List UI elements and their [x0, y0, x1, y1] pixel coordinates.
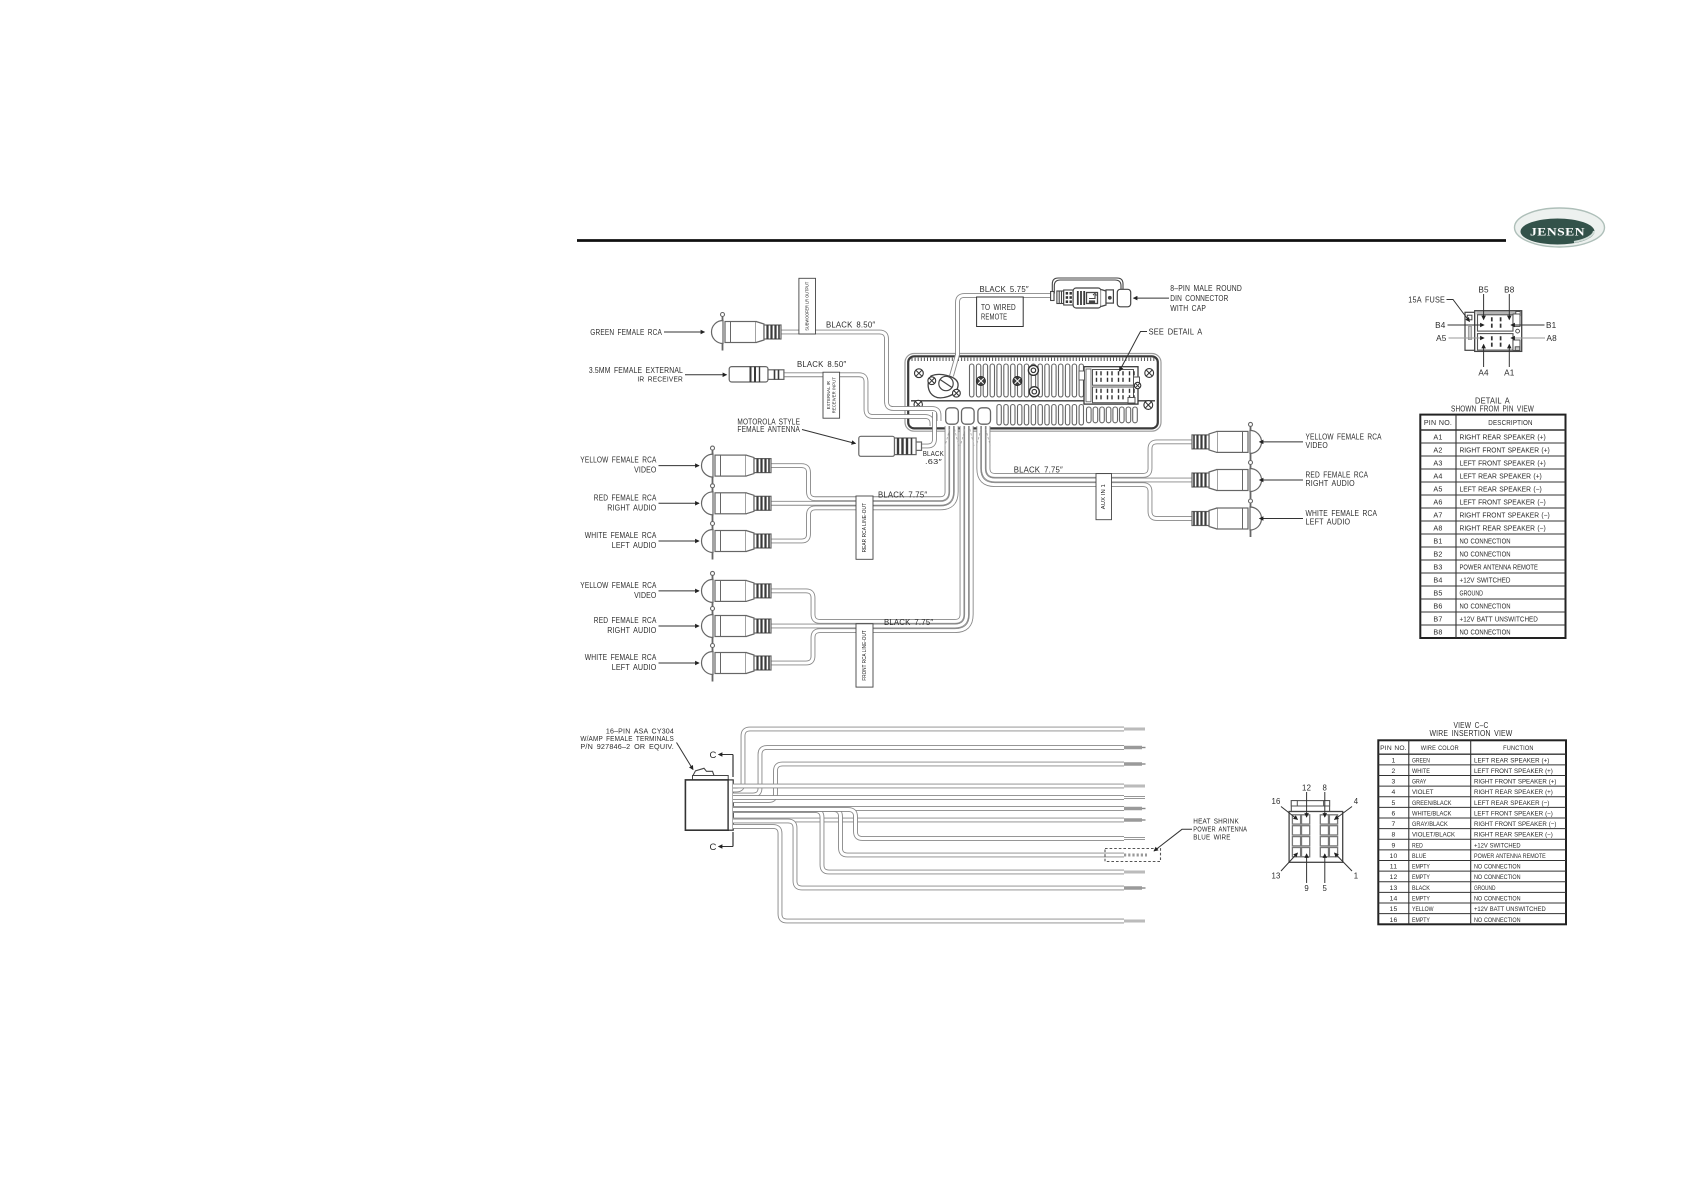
svg-text:LEFT AUDIO: LEFT AUDIO	[1306, 518, 1351, 527]
svg-text:B6: B6	[1433, 601, 1442, 610]
svg-text:LEFT FRONT SPEAKER (+): LEFT FRONT SPEAKER (+)	[1474, 768, 1553, 775]
svg-text:GROUND: GROUND	[1474, 885, 1496, 892]
svg-text:WITH CAP: WITH CAP	[1170, 304, 1206, 313]
svg-text:POWER ANTENNA REMOTE: POWER ANTENNA REMOTE	[1460, 564, 1539, 571]
svg-text:C: C	[709, 750, 716, 761]
svg-text:A4: A4	[1433, 471, 1442, 480]
svg-text:GREEN: GREEN	[1412, 757, 1430, 764]
svg-text:RECEIVER INPUT: RECEIVER INPUT	[831, 377, 836, 413]
svg-text:10: 10	[1390, 853, 1398, 860]
svg-text:WIRE COLOR: WIRE COLOR	[1421, 745, 1459, 752]
svg-text:VIDEO: VIDEO	[634, 466, 656, 475]
svg-text:+12V BATT UNSWITCHED: +12V BATT UNSWITCHED	[1474, 906, 1546, 913]
svg-text:A7: A7	[1433, 510, 1442, 519]
svg-text:LEFT FRONT SPEAKER (+): LEFT FRONT SPEAKER (+)	[1460, 460, 1546, 467]
svg-text:WHITE FEMALE RCA: WHITE FEMALE RCA	[585, 653, 657, 662]
svg-text:A1: A1	[1433, 432, 1442, 441]
svg-text:A8: A8	[1433, 523, 1442, 532]
svg-text:RED: RED	[1412, 842, 1423, 849]
svg-text:LEFT FRONT SPEAKER (−): LEFT FRONT SPEAKER (−)	[1460, 499, 1546, 506]
svg-text:1: 1	[1392, 757, 1396, 764]
svg-text:4: 4	[1354, 797, 1359, 806]
svg-text:A4: A4	[1478, 369, 1489, 378]
svg-text:6: 6	[1392, 810, 1396, 817]
svg-text:8–PIN MALE ROUND: 8–PIN MALE ROUND	[1170, 284, 1242, 293]
svg-text:EMPTY: EMPTY	[1412, 874, 1430, 881]
svg-text:B1: B1	[1433, 536, 1442, 545]
svg-text:.63″: .63″	[925, 457, 942, 466]
svg-text:GRAY/BLACK: GRAY/BLACK	[1412, 821, 1448, 828]
svg-text:EMPTY: EMPTY	[1412, 864, 1430, 871]
svg-text:RIGHT REAR SPEAKER (−): RIGHT REAR SPEAKER (−)	[1474, 832, 1553, 839]
svg-text:7: 7	[1392, 821, 1396, 828]
svg-text:RIGHT FRONT SPEAKER (−): RIGHT FRONT SPEAKER (−)	[1474, 821, 1556, 828]
svg-text:FRONT RCA LINE-OUT: FRONT RCA LINE-OUT	[862, 630, 868, 680]
svg-text:REAR RCA LINE-OUT: REAR RCA LINE-OUT	[862, 502, 868, 552]
svg-text:15A FUSE: 15A FUSE	[1408, 295, 1445, 304]
svg-text:5: 5	[1392, 800, 1396, 807]
svg-text:LEFT AUDIO: LEFT AUDIO	[612, 541, 657, 550]
svg-text:VIDEO: VIDEO	[634, 591, 656, 600]
svg-text:RED FEMALE RCA: RED FEMALE RCA	[594, 616, 657, 625]
svg-text:P/N 927846–2 OR EQUIV.: P/N 927846–2 OR EQUIV.	[580, 742, 674, 751]
svg-text:YELLOW FEMALE RCA: YELLOW FEMALE RCA	[580, 456, 657, 465]
svg-text:14: 14	[1390, 895, 1398, 902]
svg-text:13: 13	[1271, 872, 1280, 881]
svg-text:A6: A6	[1433, 497, 1442, 506]
svg-text:A1: A1	[1504, 369, 1515, 378]
svg-text:B1: B1	[1546, 321, 1557, 330]
svg-text:FEMALE ANTENNA: FEMALE ANTENNA	[737, 425, 800, 434]
svg-text:A2: A2	[1433, 445, 1442, 454]
svg-text:15: 15	[1390, 906, 1398, 913]
svg-text:B8: B8	[1504, 286, 1515, 295]
svg-text:SHOWN FROM PIN VIEW: SHOWN FROM PIN VIEW	[1451, 405, 1534, 414]
svg-text:LEFT REAR SPEAKER (+): LEFT REAR SPEAKER (+)	[1474, 757, 1549, 764]
svg-text:GRAY: GRAY	[1412, 779, 1427, 786]
svg-text:LEFT FRONT SPEAKER (−): LEFT FRONT SPEAKER (−)	[1474, 810, 1553, 817]
svg-text:GREEN FEMALE RCA: GREEN FEMALE RCA	[590, 328, 662, 337]
svg-text:PIN NO.: PIN NO.	[1424, 418, 1452, 427]
svg-text:NO CONNECTION: NO CONNECTION	[1460, 538, 1511, 545]
svg-text:EMPTY: EMPTY	[1412, 895, 1430, 902]
svg-text:VIDEO: VIDEO	[1306, 441, 1328, 450]
svg-text:A3: A3	[1433, 458, 1442, 467]
svg-text:16: 16	[1390, 917, 1398, 924]
svg-text:+12V SWITCHED: +12V SWITCHED	[1460, 577, 1511, 584]
svg-text:BLACK: BLACK	[1412, 885, 1431, 892]
svg-text:RIGHT AUDIO: RIGHT AUDIO	[607, 626, 656, 635]
svg-text:+12V SWITCHED: +12V SWITCHED	[1474, 842, 1521, 849]
svg-text:BLACK 5.75″: BLACK 5.75″	[980, 285, 1029, 294]
svg-text:NO CONNECTION: NO CONNECTION	[1474, 874, 1521, 881]
svg-text:13: 13	[1390, 885, 1398, 892]
svg-text:RIGHT AUDIO: RIGHT AUDIO	[1306, 479, 1355, 488]
svg-text:A8: A8	[1547, 334, 1558, 343]
svg-text:GROUND: GROUND	[1460, 590, 1484, 597]
svg-text:PIN NO.: PIN NO.	[1380, 745, 1407, 752]
svg-text:VIOLET: VIOLET	[1412, 789, 1434, 796]
svg-text:DIN CONNECTOR: DIN CONNECTOR	[1170, 294, 1228, 303]
svg-text:16: 16	[1271, 797, 1280, 806]
svg-text:B5: B5	[1478, 286, 1489, 295]
svg-text:BLACK 7.75″: BLACK 7.75″	[878, 491, 927, 500]
svg-text:A5: A5	[1433, 484, 1442, 493]
svg-text:RIGHT FRONT SPEAKER (+): RIGHT FRONT SPEAKER (+)	[1460, 447, 1550, 454]
svg-text:9: 9	[1304, 884, 1309, 893]
svg-text:B3: B3	[1433, 562, 1442, 571]
svg-text:BLUE: BLUE	[1412, 853, 1426, 860]
svg-text:A5: A5	[1436, 334, 1447, 343]
svg-text:11: 11	[1390, 864, 1397, 871]
svg-text:BLACK 7.75″: BLACK 7.75″	[1014, 466, 1063, 475]
svg-text:EMPTY: EMPTY	[1412, 917, 1430, 924]
svg-text:AUX IN 1: AUX IN 1	[1101, 484, 1107, 509]
svg-text:12: 12	[1390, 874, 1398, 881]
svg-text:YELLOW FEMALE RCA: YELLOW FEMALE RCA	[580, 581, 657, 590]
svg-text:B2: B2	[1433, 549, 1442, 558]
svg-text:9: 9	[1392, 842, 1396, 849]
svg-text:VIOLET/BLACK: VIOLET/BLACK	[1412, 832, 1456, 839]
svg-text:POWER ANTENNA REMOTE: POWER ANTENNA REMOTE	[1474, 853, 1546, 860]
svg-text:RIGHT REAR SPEAKER (+): RIGHT REAR SPEAKER (+)	[1460, 434, 1546, 441]
svg-text:BLACK 7.75″: BLACK 7.75″	[884, 618, 933, 627]
svg-text:SUBWOOFER LR OUTPUT: SUBWOOFER LR OUTPUT	[804, 282, 809, 331]
svg-text:RIGHT FRONT SPEAKER (+): RIGHT FRONT SPEAKER (+)	[1474, 779, 1556, 786]
svg-text:RIGHT FRONT SPEAKER (−): RIGHT FRONT SPEAKER (−)	[1460, 512, 1550, 519]
svg-text:WHITE FEMALE RCA: WHITE FEMALE RCA	[585, 531, 657, 540]
svg-text:8: 8	[1323, 784, 1328, 793]
svg-text:RIGHT REAR SPEAKER (−): RIGHT REAR SPEAKER (−)	[1460, 525, 1546, 532]
svg-text:LEFT REAR SPEAKER (−): LEFT REAR SPEAKER (−)	[1460, 486, 1542, 493]
svg-text:RIGHT AUDIO: RIGHT AUDIO	[607, 503, 656, 512]
svg-text:NO CONNECTION: NO CONNECTION	[1460, 629, 1511, 636]
svg-text:WHITE: WHITE	[1412, 768, 1430, 775]
svg-text:GREEN/BLACK: GREEN/BLACK	[1412, 800, 1452, 807]
svg-text:BLUE WIRE: BLUE WIRE	[1193, 833, 1230, 842]
svg-text:C: C	[709, 842, 716, 853]
svg-text:NO CONNECTION: NO CONNECTION	[1474, 895, 1521, 902]
svg-text:FUNCTION: FUNCTION	[1503, 745, 1534, 752]
svg-text:+12V BATT UNSWITCHED: +12V BATT UNSWITCHED	[1460, 616, 1538, 623]
svg-text:WIRE INSERTION VIEW: WIRE INSERTION VIEW	[1430, 729, 1513, 738]
svg-text:LEFT AUDIO: LEFT AUDIO	[612, 663, 657, 672]
svg-text:NO CONNECTION: NO CONNECTION	[1460, 603, 1511, 610]
svg-text:1: 1	[1354, 872, 1359, 881]
svg-text:BLACK 8.50″: BLACK 8.50″	[797, 360, 846, 369]
svg-text:B8: B8	[1433, 627, 1442, 636]
svg-text:IR RECEIVER: IR RECEIVER	[637, 374, 683, 383]
svg-text:2: 2	[1392, 768, 1396, 775]
svg-text:5: 5	[1323, 884, 1328, 893]
svg-text:LEFT REAR SPEAKER (+): LEFT REAR SPEAKER (+)	[1460, 473, 1542, 480]
svg-text:JENSEN: JENSEN	[1530, 227, 1585, 239]
svg-text:8: 8	[1392, 832, 1396, 839]
svg-text:TO WIRED: TO WIRED	[981, 303, 1016, 312]
svg-text:3: 3	[1392, 779, 1396, 786]
svg-text:DESCRIPTION: DESCRIPTION	[1488, 418, 1532, 427]
svg-text:YELLOW: YELLOW	[1412, 906, 1434, 913]
svg-text:RIGHT REAR SPEAKER (+): RIGHT REAR SPEAKER (+)	[1474, 789, 1553, 796]
svg-text:NO CONNECTION: NO CONNECTION	[1474, 917, 1521, 924]
svg-text:REMOTE: REMOTE	[981, 313, 1007, 322]
svg-text:4: 4	[1392, 789, 1396, 796]
svg-text:NO CONNECTION: NO CONNECTION	[1460, 551, 1511, 558]
svg-text:LEFT REAR SPEAKER (−): LEFT REAR SPEAKER (−)	[1474, 800, 1549, 807]
svg-text:NO CONNECTION: NO CONNECTION	[1474, 864, 1521, 871]
svg-text:BLACK 8.50″: BLACK 8.50″	[826, 321, 875, 330]
svg-text:B4: B4	[1433, 575, 1442, 584]
svg-text:B4: B4	[1435, 321, 1446, 330]
svg-text:RED FEMALE RCA: RED FEMALE RCA	[594, 493, 657, 502]
svg-text:SEE DETAIL A: SEE DETAIL A	[1149, 328, 1203, 337]
svg-text:EXTERNAL IR: EXTERNAL IR	[826, 381, 831, 410]
svg-text:B5: B5	[1433, 588, 1442, 597]
svg-text:B7: B7	[1433, 614, 1442, 623]
svg-text:12: 12	[1302, 784, 1311, 793]
svg-text:WHITE/BLACK: WHITE/BLACK	[1412, 810, 1452, 817]
